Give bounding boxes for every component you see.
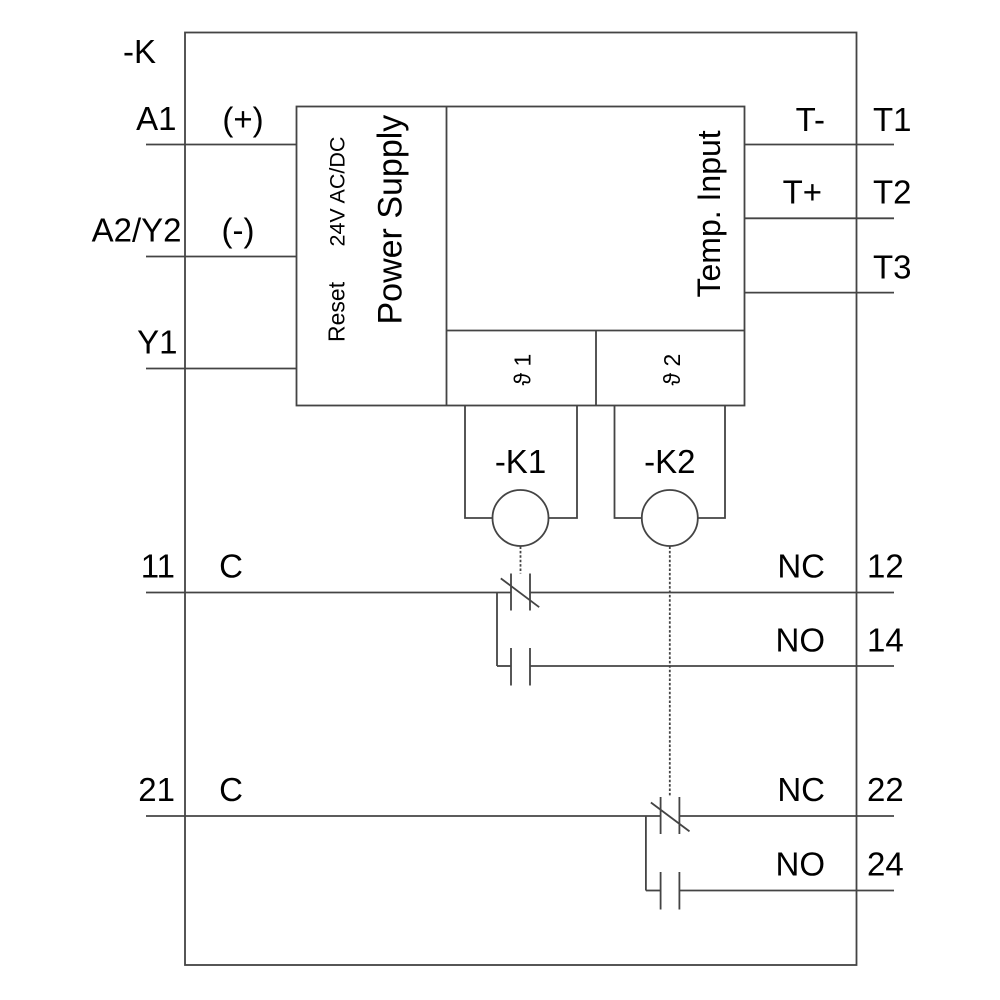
svg-text:T3: T3 (873, 249, 912, 286)
svg-text:A2/Y2: A2/Y2 (92, 212, 182, 249)
svg-text:11: 11 (141, 548, 175, 585)
svg-text:14: 14 (867, 622, 904, 659)
svg-text:(-): (-) (222, 212, 255, 249)
svg-text:22: 22 (867, 771, 904, 808)
svg-text:T2: T2 (873, 174, 912, 211)
svg-text:24V AC/DC: 24V AC/DC (326, 137, 350, 247)
svg-text:Temp. Input: Temp. Input (691, 130, 727, 297)
svg-text:-K1: -K1 (495, 443, 546, 480)
svg-text:12: 12 (867, 548, 904, 585)
svg-text:21: 21 (138, 771, 175, 808)
svg-text:(+): (+) (222, 101, 263, 138)
svg-text:NC: NC (777, 548, 825, 585)
svg-text:-K2: -K2 (644, 443, 695, 480)
svg-text:Power Supply: Power Supply (372, 115, 410, 325)
svg-text:A1: A1 (136, 100, 176, 137)
svg-text:-K: -K (123, 33, 156, 70)
svg-text:T1: T1 (873, 101, 912, 138)
svg-text:Reset: Reset (324, 281, 350, 342)
svg-text:NC: NC (777, 771, 825, 808)
svg-text:ϑ 2: ϑ 2 (659, 354, 685, 386)
svg-text:T+: T+ (783, 174, 822, 211)
svg-text:NO: NO (776, 846, 826, 883)
svg-text:C: C (219, 548, 243, 585)
svg-text:ϑ 1: ϑ 1 (510, 354, 536, 386)
svg-text:C: C (219, 771, 243, 808)
svg-text:NO: NO (776, 622, 826, 659)
svg-text:T-: T- (796, 101, 825, 138)
svg-text:24: 24 (867, 846, 904, 883)
svg-text:Y1: Y1 (137, 324, 177, 361)
